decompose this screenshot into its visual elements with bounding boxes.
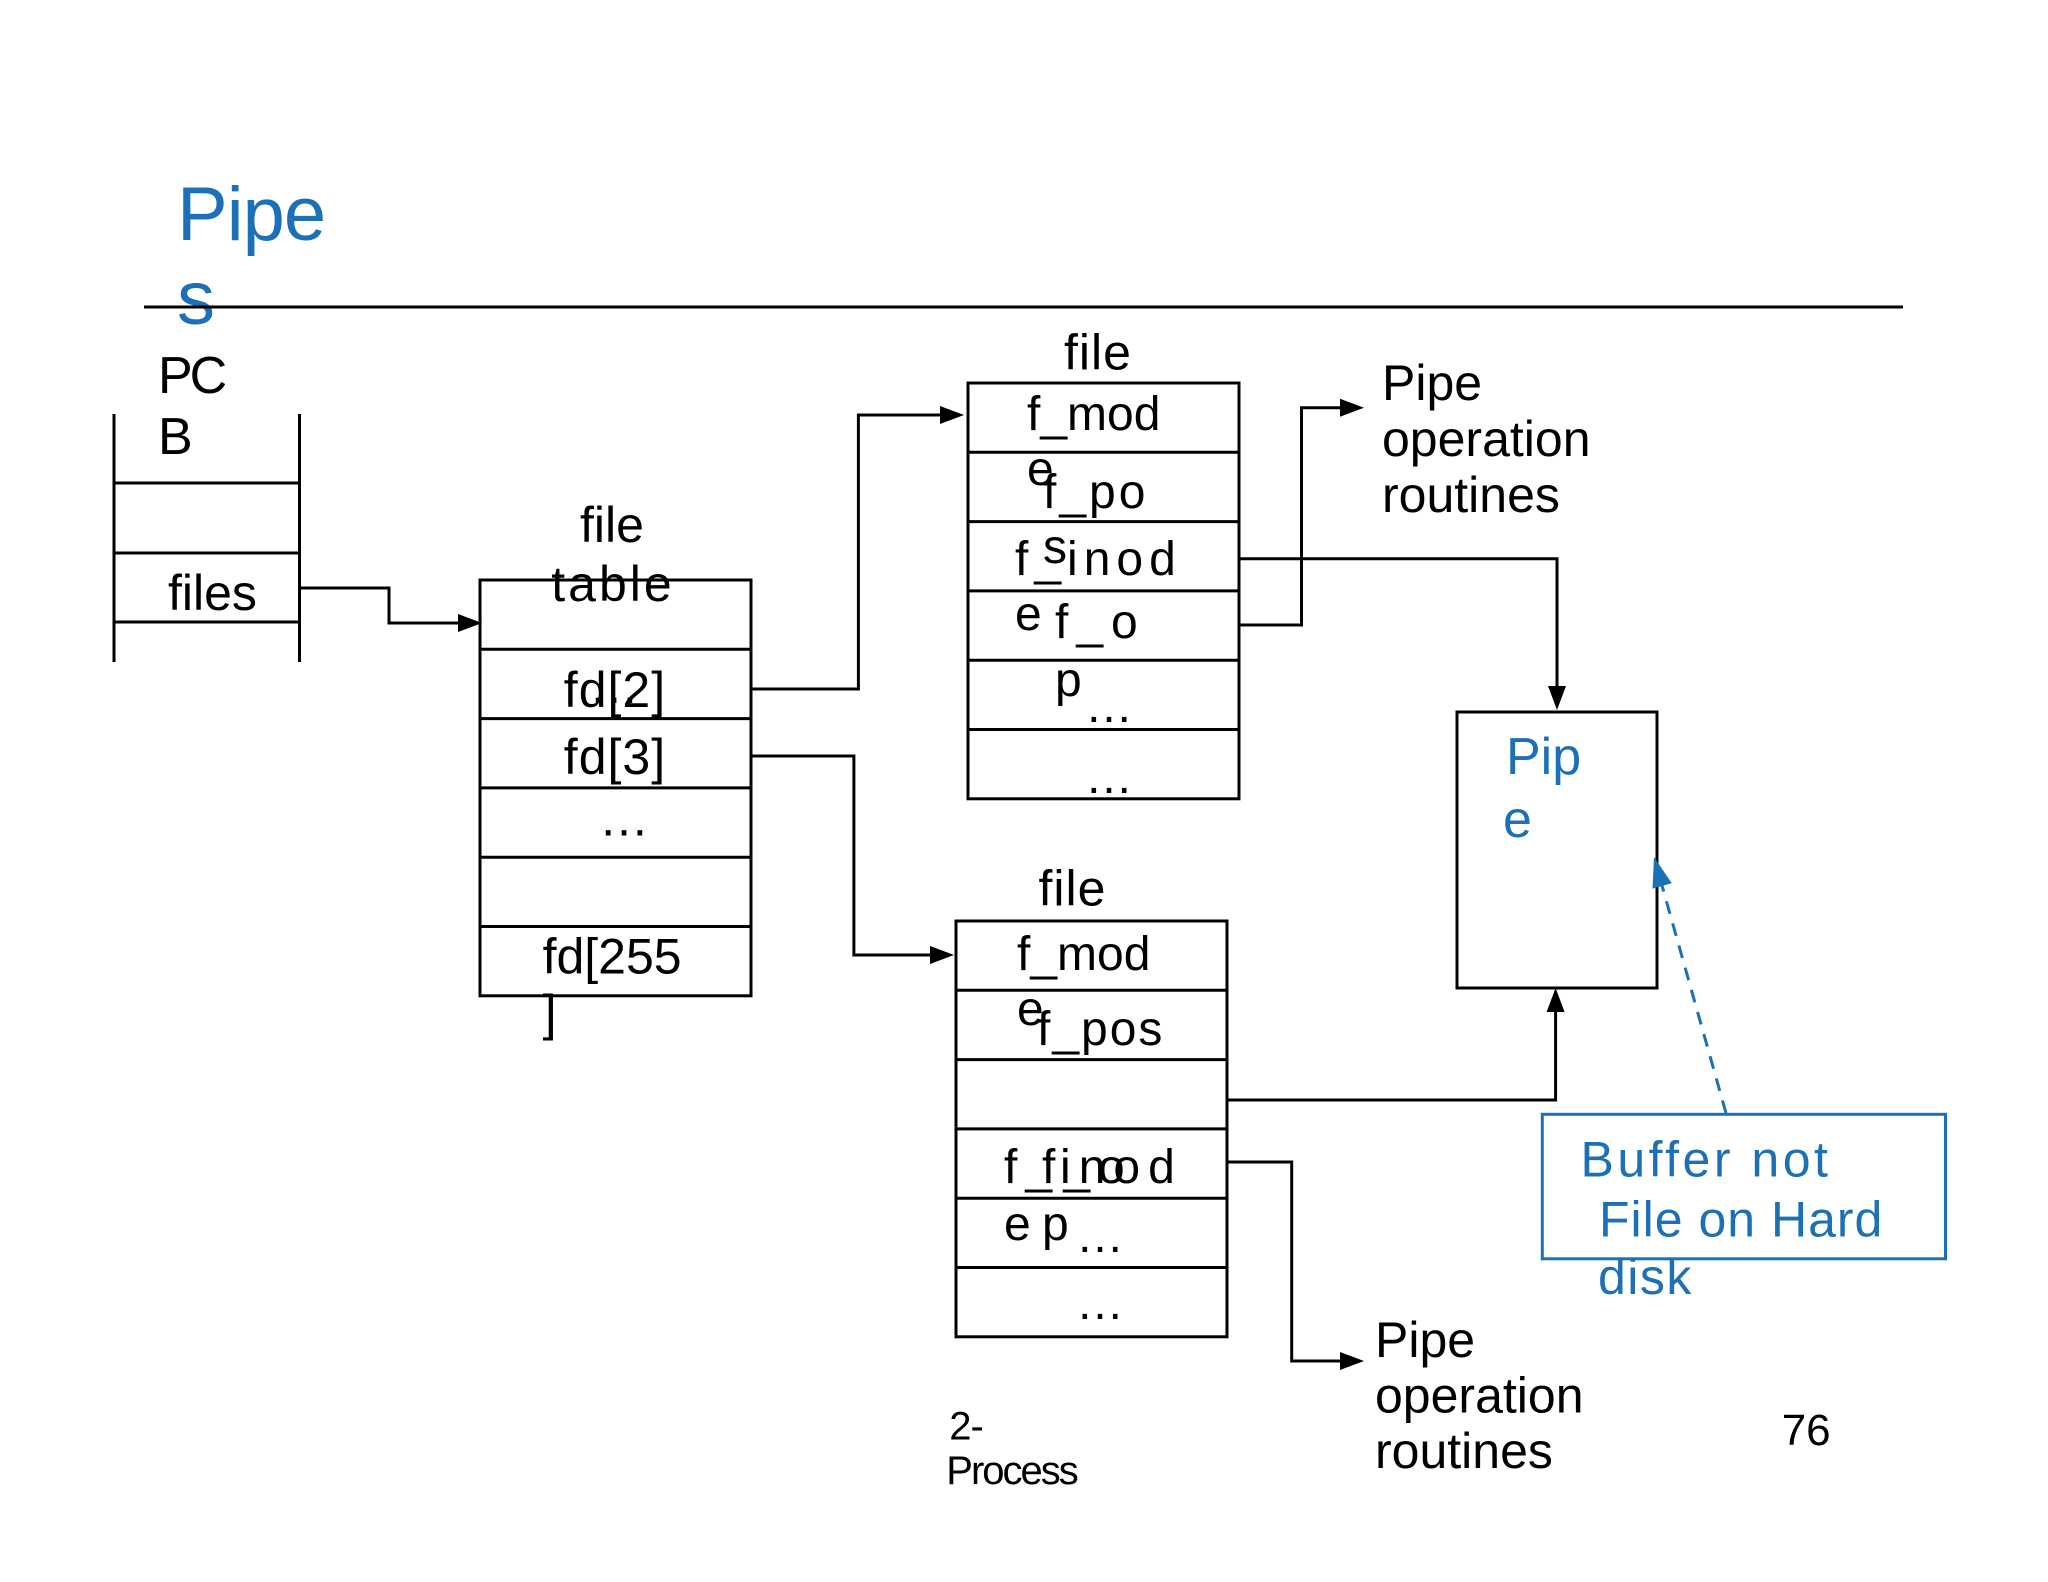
svg-text:routines: routines	[1375, 1423, 1553, 1479]
svg-text:e: e	[1015, 588, 1042, 641]
title rule	[144, 306, 1903, 309]
svg-text:fd[2]: fd[2]	[564, 662, 666, 718]
svg-text:…: …	[1085, 751, 1133, 804]
lower file struct box	[956, 921, 1227, 1337]
svg-text:f_inod: f_inod	[1015, 533, 1182, 586]
svg-text:…: …	[599, 791, 649, 847]
svg-text:f_o: f_o	[1042, 1141, 1133, 1194]
svg-text:Buffer not: Buffer not	[1581, 1131, 1832, 1187]
Buffer note box	[1542, 1114, 1945, 1259]
svg-text:p: p	[1055, 654, 1082, 707]
svg-text:Pipe: Pipe	[1375, 1312, 1475, 1368]
svg-text:operation: operation	[1382, 411, 1591, 467]
svg-text:2-: 2-	[949, 1404, 983, 1448]
arrow lower row4 to pipe operation routines (bottom)	[1227, 1162, 1342, 1361]
svg-text:files: files	[168, 565, 257, 621]
svg-text:routines: routines	[1382, 467, 1560, 523]
svg-text:s: s	[177, 256, 215, 341]
svg-text:]: ]	[543, 985, 557, 1041]
svg-text:table: table	[551, 556, 674, 612]
svg-text:f_pos: f_pos	[1037, 1003, 1164, 1056]
svg-text:…: …	[1085, 680, 1133, 733]
upper file struct box	[968, 383, 1239, 799]
svg-text:Pip: Pip	[1506, 728, 1581, 786]
svg-text:…: …	[1076, 1210, 1124, 1263]
svg-text:disk: disk	[1598, 1249, 1693, 1305]
svg-text:f_mod: f_mod	[1027, 388, 1160, 441]
svg-text:operation: operation	[1375, 1368, 1584, 1424]
svg-text:e: e	[1004, 1198, 1031, 1251]
svg-text:file: file	[580, 497, 644, 553]
svg-text:fd[3]: fd[3]	[564, 729, 666, 785]
arrow upper f_inode to Pipe box	[1239, 559, 1557, 686]
svg-text:PC: PC	[158, 347, 226, 405]
svg-text:f_mod: f_mod	[1017, 928, 1150, 981]
svg-text:f_o: f_o	[1055, 596, 1146, 649]
svg-text:Pipe: Pipe	[1382, 355, 1482, 411]
arrow upper f_op to pipe operation routines	[1239, 408, 1342, 625]
file table box	[480, 580, 751, 996]
arrow files to file table	[300, 588, 461, 623]
svg-text:file: file	[1064, 325, 1132, 381]
svg-text:p: p	[1042, 1198, 1069, 1251]
svg-text:Pipe: Pipe	[177, 172, 325, 257]
arrow fd[2] to upper file struct	[751, 415, 942, 689]
svg-text:file: file	[1039, 861, 1107, 917]
svg-text:f_po: f_po	[1043, 466, 1148, 519]
svg-text:B: B	[158, 408, 190, 466]
svg-text:76: 76	[1782, 1406, 1831, 1455]
svg-text:Process: Process	[946, 1449, 1077, 1493]
Pipe box	[1457, 712, 1657, 988]
PCB ladder	[113, 414, 116, 662]
svg-text:e: e	[1503, 791, 1532, 849]
arrow lower row3 to Pipe box bottom	[1227, 1012, 1556, 1100]
svg-text:fd[255: fd[255	[543, 929, 682, 985]
svg-text:…: …	[1076, 1277, 1124, 1330]
svg-text:File on Hard: File on Hard	[1599, 1192, 1883, 1248]
dashed arrow buffer note to Pipe box	[1661, 882, 1726, 1113]
arrow fd[3] to lower file struct	[751, 756, 932, 955]
